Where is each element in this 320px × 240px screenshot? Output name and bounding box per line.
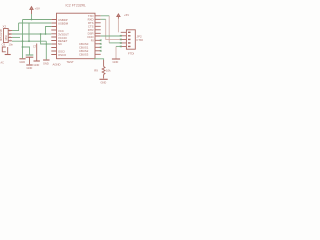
svg-text:IC2 FT232RL: IC2 FT232RL	[66, 3, 87, 7]
svg-text:NC: NC	[58, 42, 62, 46]
svg-text:USBDM: USBDM	[58, 22, 69, 26]
svg-text:+5V: +5V	[35, 6, 40, 10]
svg-text:10k: 10k	[106, 69, 111, 73]
svg-text:GND: GND	[34, 63, 40, 67]
svg-text:FTDI: FTDI	[128, 52, 134, 56]
svg-text:AC: AC	[1, 62, 5, 65]
svg-text:C9: C9	[2, 43, 6, 47]
svg-text:OSCO: OSCO	[58, 53, 67, 57]
svg-text:MINI-USB: MINI-USB	[0, 29, 3, 41]
svg-text:FTDI: FTDI	[137, 38, 144, 42]
svg-text:GND: GND	[27, 66, 33, 70]
svg-text:AGND: AGND	[53, 62, 61, 66]
svg-text:CBUS3: CBUS3	[79, 52, 89, 56]
svg-text:RI: RI	[91, 38, 94, 42]
svg-text:10n: 10n	[9, 43, 14, 47]
svg-text:GND: GND	[113, 60, 119, 64]
svg-text:TEST: TEST	[67, 60, 74, 64]
svg-text:GND: GND	[43, 62, 49, 66]
svg-text:X2: X2	[3, 25, 7, 29]
svg-text:R9: R9	[94, 69, 98, 73]
svg-text:GND: GND	[19, 60, 25, 64]
svg-text:GND: GND	[101, 81, 107, 85]
svg-text:MINI: MINI	[4, 35, 8, 41]
svg-text:+5V: +5V	[124, 13, 129, 17]
